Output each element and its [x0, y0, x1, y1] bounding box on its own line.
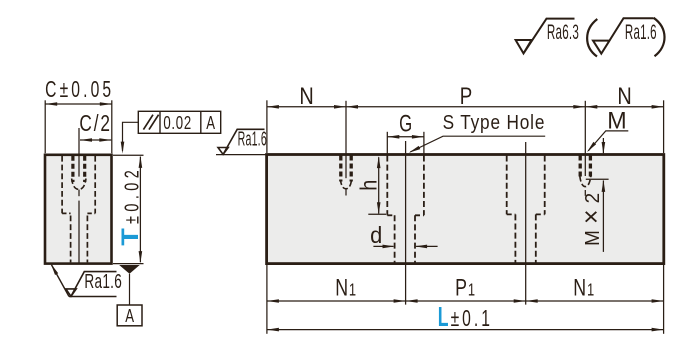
dimension d (through hole dia) — [370, 221, 437, 248]
tapped hole (left) hidden lines — [340, 156, 351, 189]
svg-text:C/2: C/2 — [79, 112, 111, 137]
left view counterbore G hidden lines — [62, 156, 95, 214]
svg-text:Ra1.6: Ra1.6 — [84, 270, 122, 292]
svg-text:h: h — [355, 180, 382, 191]
frame leader arrow — [121, 122, 139, 153]
dimension T±0.02 — [116, 156, 143, 263]
dimension N (left) — [267, 82, 346, 154]
svg-text:±0.02: ±0.02 — [120, 166, 143, 224]
svg-text:±0.1: ±0.1 — [451, 306, 493, 332]
dimension h (counterbore depth) — [355, 156, 386, 214]
svg-text:Ra1.6: Ra1.6 — [238, 129, 267, 150]
S type hole centerline — [405, 141, 407, 305]
svg-text:P: P — [460, 83, 472, 110]
datum A symbol — [117, 265, 142, 326]
svg-text:d: d — [370, 221, 382, 248]
surface roughness Ra1.6 with leader (bottom left) — [49, 263, 122, 297]
bottom surface extension line — [113, 263, 144, 265]
dimension N1 (left) — [267, 265, 406, 334]
svg-text:S Type Hole: S Type Hole — [443, 112, 546, 135]
surface roughness Ra6.3 (general) — [516, 19, 579, 54]
dimension P1 — [406, 275, 526, 303]
dimension P — [346, 83, 585, 154]
middle counterbore centerline — [525, 142, 527, 305]
svg-text:0.02: 0.02 — [163, 114, 192, 134]
svg-text:T: T — [116, 228, 143, 246]
left view hole centerline — [78, 128, 80, 263]
dimension C±0.05 — [45, 77, 114, 153]
svg-text:A: A — [125, 307, 134, 327]
tapped hole (right) centerline — [584, 155, 586, 196]
parallelism tolerance frame 0.02 A — [138, 111, 220, 133]
svg-text:M×2: M×2 — [577, 187, 606, 246]
svg-text:N: N — [299, 82, 313, 109]
S type hole counterbore hidden lines — [387, 156, 424, 263]
dimension N (right) — [585, 82, 663, 153]
svg-text:A: A — [206, 114, 215, 134]
label M with leader — [586, 108, 629, 153]
dimension G — [387, 111, 424, 154]
surface roughness (Ra1.6) in parentheses — [587, 18, 664, 57]
svg-text:L: L — [438, 301, 449, 332]
main view body outline — [267, 155, 664, 264]
svg-text:N: N — [617, 82, 631, 109]
left view tapped hole hidden lines — [72, 156, 86, 190]
dimension C/2 — [79, 112, 111, 142]
dimension L±0.1 — [267, 301, 664, 332]
middle counterbore hidden lines — [507, 156, 545, 263]
tapped hole (right) hidden lines — [580, 156, 591, 187]
tapped hole (left) centerline — [345, 155, 347, 196]
surface roughness Ra1.6 on top surface extension — [216, 129, 267, 154]
svg-text:C±0.05: C±0.05 — [45, 77, 114, 103]
svg-text:Ra6.3: Ra6.3 — [547, 21, 579, 44]
svg-text:Ra1.6: Ra1.6 — [625, 21, 657, 45]
left view body outline — [45, 155, 112, 264]
left view through hole d hidden lines — [71, 216, 88, 263]
dimension N1 (right) — [526, 265, 664, 334]
svg-text:G: G — [399, 111, 412, 138]
dimension M×2 (thread depth) — [577, 138, 609, 252]
label S Type Hole with leader — [408, 112, 545, 155]
top surface extension line — [113, 154, 144, 156]
